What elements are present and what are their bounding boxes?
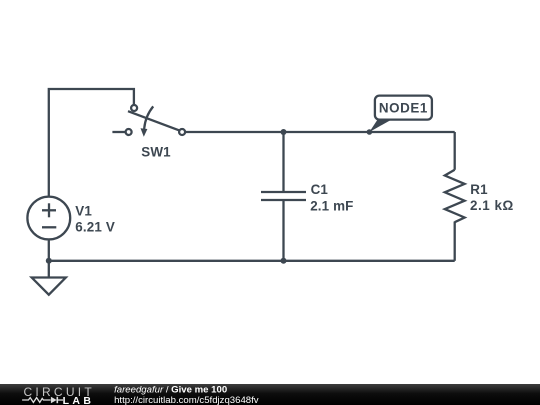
CircuitLab logo diode <box>51 397 57 403</box>
resistor R1 <box>445 170 465 222</box>
wire resistor bottom to corner <box>454 222 456 261</box>
node junction V1-ground <box>46 258 52 264</box>
svg-text:2.1 kΩ: 2.1 kΩ <box>470 198 514 213</box>
switch SW1 <box>126 105 186 137</box>
CircuitLab logo diode bar <box>56 397 58 403</box>
node NODE1 <box>367 129 373 135</box>
wire V1 bottom to ground <box>48 239 50 277</box>
CircuitLab logo diode wire <box>57 399 63 401</box>
svg-text:R1: R1 <box>470 182 488 197</box>
voltage source V1 <box>27 197 70 240</box>
svg-text:LAB: LAB <box>63 395 95 405</box>
svg-text:fareedgafur / Give me 100: fareedgafur / Give me 100 <box>114 385 227 396</box>
wire right vertical to resistor <box>454 132 456 170</box>
wire capacitor bottom lead <box>282 200 284 261</box>
svg-text:http://circuitlab.com/c5fdjzq3: http://circuitlab.com/c5fdjzq3648fv <box>114 395 259 405</box>
wire switch left stub <box>112 131 125 133</box>
svg-text:2.1 mF: 2.1 mF <box>310 199 353 214</box>
CircuitLab logo resistor squiggle <box>22 398 50 403</box>
wire top horizontal from switch to right <box>185 131 455 133</box>
ground <box>32 278 66 295</box>
svg-text:SW1: SW1 <box>141 145 171 160</box>
label C1 value <box>310 182 353 213</box>
wire bottom horizontal <box>49 260 455 262</box>
label R1 value <box>470 182 514 213</box>
wire top-left horizontal <box>49 89 134 197</box>
svg-text:C1: C1 <box>311 182 329 197</box>
svg-text:NODE1: NODE1 <box>379 101 428 116</box>
node NODE1 callout tail <box>369 120 391 132</box>
node NODE1 callout box <box>375 96 432 120</box>
wire capacitor top lead <box>282 132 284 192</box>
node junction capacitor bottom <box>281 258 287 264</box>
label V1 value <box>75 204 115 235</box>
capacitor C1 <box>261 192 306 200</box>
footer bar <box>0 384 540 405</box>
node junction capacitor top <box>281 129 287 135</box>
svg-text:V1: V1 <box>75 204 92 219</box>
svg-text:6.21 V: 6.21 V <box>75 220 115 235</box>
